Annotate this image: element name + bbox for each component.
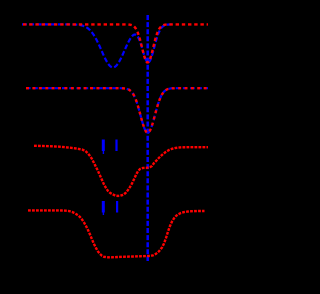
panel 4 component marker tick 1 xyxy=(102,201,105,213)
panel 2 blue dashed model curve xyxy=(26,88,208,133)
vertical dashed line at line centre x=147.7 xyxy=(146,15,149,261)
panel 3 marker tick 1 tail xyxy=(103,151,104,154)
panel 3 red dotted profile xyxy=(34,146,208,196)
panel 4 component marker tick 2 xyxy=(116,201,118,213)
panel 3 component marker tick 1 xyxy=(102,140,105,152)
panel 3 component marker tick 2 xyxy=(115,140,117,152)
panel 2 red dotted observed curve xyxy=(26,88,208,133)
panel 4 marker tick 1 tail xyxy=(103,213,104,216)
panel 1 red dotted observed curve xyxy=(23,24,208,62)
panel 1 blue dashed model curve xyxy=(22,24,172,67)
panel 4 red dotted profile xyxy=(28,210,205,257)
